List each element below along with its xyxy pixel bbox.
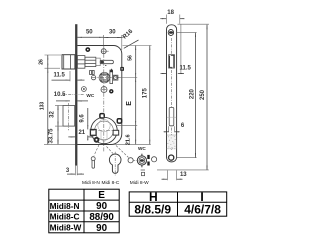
svg-text:4/6/7/8: 4/6/7/8 (184, 203, 221, 217)
black spindle bars (147, 155, 149, 159)
svg-text:Midi8-W: Midi8-W (50, 223, 82, 233)
latch tail (77, 56, 85, 69)
dark ring bottom (94, 137, 100, 143)
svg-text:18: 18 (167, 10, 174, 16)
euro profile ghost (98, 119, 110, 131)
left table (49, 189, 119, 233)
bottom screw hole (169, 155, 174, 160)
svg-text:Midi8-C: Midi8-C (50, 212, 80, 222)
ext lines right (178, 23, 210, 25)
svg-text:50: 50 (86, 29, 93, 35)
svg-text:220: 220 (190, 88, 196, 99)
svg-text:133: 133 (40, 102, 46, 111)
black dot (109, 89, 113, 93)
latch bolt head (62, 55, 75, 69)
lug right (117, 119, 121, 123)
centerlines (103, 46, 105, 153)
WC turn Midi8-W (137, 156, 146, 165)
svg-text:Midi 8-N: Midi 8-N (82, 180, 100, 186)
svg-text:32: 32 (50, 111, 56, 118)
deadbolt slot (169, 108, 174, 126)
right table (129, 192, 227, 216)
svg-text:30: 30 (109, 29, 116, 35)
svg-text:26: 26 (39, 59, 45, 65)
faceplate side bar (75, 24, 77, 165)
WC hole (82, 87, 87, 92)
svg-text:21: 21 (78, 130, 85, 136)
follower marks (90, 71, 92, 75)
svg-text:Midi8-N: Midi8-N (50, 201, 80, 211)
svg-text:90: 90 (96, 223, 107, 234)
stippled section (167, 135, 176, 149)
svg-text:WC: WC (138, 146, 146, 151)
follower hub (99, 72, 110, 83)
svg-text:11.5: 11.5 (180, 65, 192, 71)
latch cutout (169, 55, 175, 69)
lock case outline (77, 46, 121, 145)
screw hole with cross (101, 87, 107, 93)
euro cylinder Midi8-C (109, 154, 121, 173)
small circle (128, 158, 133, 163)
svg-text:E: E (98, 190, 105, 201)
svg-text:9.6: 9.6 (80, 114, 86, 123)
svg-text:33.75: 33.75 (49, 128, 55, 144)
marks under WC (141, 169, 145, 171)
black stud on case edge (120, 67, 124, 71)
cylinder circle (91, 117, 117, 143)
lug top (100, 114, 104, 118)
svg-text:11.5: 11.5 (54, 73, 66, 79)
horizontal slot (100, 60, 113, 63)
latch projection line (180, 24, 182, 73)
svg-text:Midi 8-W: Midi 8-W (130, 180, 149, 186)
svg-text:90: 90 (96, 201, 107, 212)
keyhole Midi8-N (91, 157, 95, 161)
link square with hole (113, 75, 118, 80)
svg-text:Midi 8-C: Midi 8-C (101, 180, 119, 186)
svg-text:13: 13 (180, 172, 187, 178)
faceplate strip (167, 25, 177, 162)
svg-text:10.5: 10.5 (54, 92, 66, 98)
svg-text:88/90: 88/90 (89, 212, 114, 223)
svg-text:56: 56 (128, 55, 134, 61)
top screw hole (168, 30, 173, 36)
svg-text:8/8.5/9: 8/8.5/9 (134, 203, 171, 217)
deadbolt box (63, 106, 75, 127)
white square right (113, 130, 119, 135)
plate centerline (171, 38, 173, 150)
svg-text:175: 175 (142, 88, 148, 99)
svg-text:250: 250 (200, 89, 206, 100)
svg-text:WC: WC (86, 93, 94, 98)
open hole with cross (101, 49, 106, 54)
slide bar (110, 70, 113, 83)
leader dashes (94, 145, 99, 156)
long bottom extension line (44, 143, 151, 145)
black post hole (85, 47, 90, 52)
small circle right (152, 157, 157, 162)
svg-text:E: E (126, 101, 133, 106)
svg-text:21.6: 21.6 (126, 134, 132, 145)
WC dash line (62, 94, 84, 96)
white square left (90, 130, 96, 136)
